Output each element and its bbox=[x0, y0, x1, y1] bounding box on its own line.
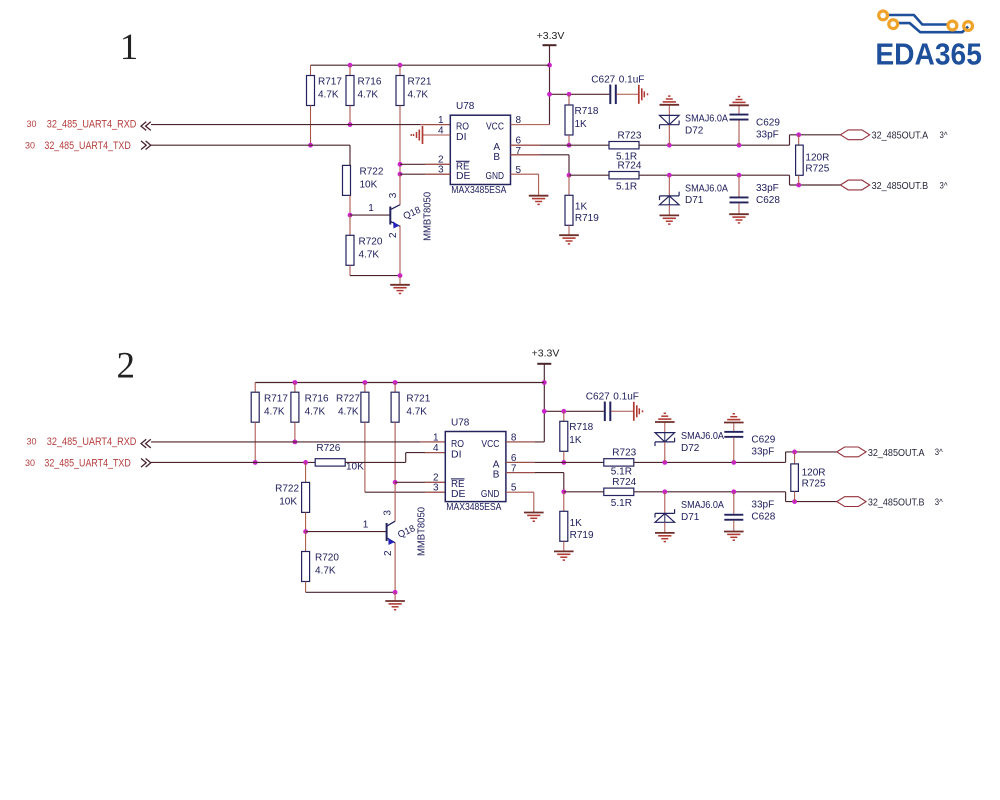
wire VCC branch bbox=[550, 93, 610, 95]
svg-text:SMAJ6.0A: SMAJ6.0A bbox=[681, 500, 724, 511]
ground D71 bbox=[655, 522, 675, 541]
svg-text:32_485OUT.A: 32_485OUT.A bbox=[872, 131, 929, 142]
junction bbox=[393, 380, 398, 385]
diode D72 SMAJ6.0A bbox=[655, 431, 724, 463]
svg-text:U78: U78 bbox=[451, 417, 470, 428]
wire net 32_485_UART4_TXD bbox=[151, 461, 315, 463]
svg-text:4.7K: 4.7K bbox=[318, 90, 339, 101]
ground D72 top (inverted) bbox=[655, 413, 675, 432]
svg-text:GND: GND bbox=[481, 489, 500, 500]
wire bbox=[634, 491, 786, 493]
svg-text:0.1uF: 0.1uF bbox=[613, 392, 639, 403]
svg-text:SMAJ6.0A: SMAJ6.0A bbox=[685, 184, 728, 195]
svg-text:R716: R716 bbox=[305, 393, 329, 404]
power +3.3V supply bbox=[532, 348, 560, 364]
wire net 32_485_UART4_RXD bbox=[151, 124, 450, 126]
svg-text:DI: DI bbox=[456, 132, 467, 143]
op-amp U1 transceiver U78 MAX3485ESA bbox=[445, 417, 506, 513]
svg-text:3^: 3^ bbox=[940, 130, 949, 140]
svg-text:3: 3 bbox=[382, 510, 393, 516]
wire bbox=[634, 461, 786, 463]
junction B node bbox=[567, 173, 572, 178]
resistor R723 bbox=[609, 130, 642, 162]
port 32_485OUT.A bbox=[840, 130, 948, 142]
port 32_485OUT.A bbox=[837, 447, 944, 459]
svg-text:3^: 3^ bbox=[935, 497, 944, 507]
wire emitter bbox=[399, 225, 401, 275]
svg-text:10K: 10K bbox=[360, 179, 378, 190]
section number 2 bbox=[117, 346, 136, 387]
node 32_485_UART4_RXD sheet entry bbox=[26, 119, 150, 131]
pin 2 bbox=[433, 473, 439, 484]
svg-text:32_485_UART4_TXD: 32_485_UART4_TXD bbox=[44, 140, 130, 152]
wire bbox=[564, 491, 604, 493]
svg-text:4.7K: 4.7K bbox=[358, 90, 379, 101]
svg-text:R717: R717 bbox=[264, 393, 288, 404]
resistor R717 bbox=[307, 65, 343, 145]
ground C628 bbox=[729, 203, 749, 223]
capacitor C629 bbox=[724, 431, 775, 463]
wire RE bbox=[400, 163, 450, 165]
svg-text:MMBT8050: MMBT8050 bbox=[417, 507, 428, 556]
resistor R718 bbox=[560, 411, 594, 462]
wire collector bbox=[394, 482, 396, 521]
ground C629 top (inverted) bbox=[729, 97, 749, 114]
junction R717/TXD bbox=[253, 460, 258, 465]
svg-text:3: 3 bbox=[433, 483, 439, 494]
pin 3 bbox=[438, 165, 444, 176]
svg-text:33pF: 33pF bbox=[751, 500, 774, 511]
wire collector bbox=[399, 174, 401, 205]
pin 4 bbox=[433, 443, 439, 454]
svg-text:R724: R724 bbox=[612, 477, 636, 488]
svg-text:1K: 1K bbox=[575, 119, 588, 130]
pin 1 bbox=[433, 432, 439, 443]
svg-text:3^: 3^ bbox=[940, 180, 949, 190]
pin 7 bbox=[511, 464, 517, 475]
wire DI route bbox=[345, 453, 445, 463]
junction R716 to RXD bbox=[348, 122, 353, 127]
pin 6 bbox=[516, 136, 522, 147]
resistor R720 bbox=[302, 532, 340, 593]
junction R718 top bbox=[561, 409, 566, 414]
svg-text:RO: RO bbox=[456, 122, 469, 133]
svg-text:C629: C629 bbox=[751, 435, 775, 446]
resistor R716 bbox=[291, 383, 329, 442]
junction bus bbox=[542, 380, 547, 385]
svg-text:1: 1 bbox=[368, 203, 374, 214]
pin 5 bbox=[516, 165, 522, 176]
svg-text:C627: C627 bbox=[586, 392, 610, 403]
svg-text:1: 1 bbox=[120, 27, 139, 68]
wire B to port bbox=[790, 175, 841, 185]
diode D72 SMAJ6.0A bbox=[660, 114, 729, 146]
junction D71/B bbox=[667, 173, 672, 178]
wire net 32_485_UART4_RXD bbox=[151, 441, 445, 443]
svg-text:GND: GND bbox=[486, 171, 505, 182]
ground D71 bbox=[660, 205, 680, 224]
wire DE bbox=[400, 173, 450, 175]
resistor R724 bbox=[609, 160, 642, 192]
wire VCC branch bbox=[544, 410, 604, 412]
wire emitter bbox=[394, 543, 396, 593]
svg-text:MMBT8050: MMBT8050 bbox=[423, 191, 434, 240]
svg-text:R721: R721 bbox=[408, 77, 432, 88]
ground D72 top (inverted) bbox=[660, 96, 680, 115]
resistor R720 bbox=[346, 215, 383, 276]
junction R718/A bbox=[561, 460, 566, 465]
svg-text:MAX3485ESA: MAX3485ESA bbox=[446, 502, 501, 513]
ground U78 pin5 bbox=[524, 512, 544, 521]
pin 3 bbox=[433, 483, 439, 494]
wire emitter-R720 link bbox=[306, 591, 396, 593]
logo pad bbox=[948, 21, 957, 30]
wire bbox=[549, 45, 551, 124]
logo pad bbox=[964, 22, 973, 31]
svg-text:R721: R721 bbox=[406, 393, 430, 404]
svg-text:C629: C629 bbox=[756, 117, 780, 128]
junction R721/RE bbox=[393, 480, 398, 485]
svg-text:10K: 10K bbox=[279, 496, 297, 507]
svg-text:32_485OUT.B: 32_485OUT.B bbox=[872, 181, 929, 192]
svg-text:4.7K: 4.7K bbox=[305, 406, 326, 417]
ground Q18 emitter bbox=[390, 276, 410, 294]
junction emitter/ground bbox=[393, 590, 398, 595]
resistor R721 bbox=[391, 383, 431, 483]
svg-text:30: 30 bbox=[26, 119, 36, 129]
wire base bbox=[350, 214, 390, 216]
svg-text:C628: C628 bbox=[756, 195, 780, 206]
wire A to port bbox=[786, 452, 837, 463]
op-amp U1 transceiver U78 MAX3485ESA bbox=[450, 101, 510, 196]
wire DE from R727 bbox=[365, 491, 445, 493]
svg-text:R718: R718 bbox=[575, 106, 599, 117]
svg-text:120R: 120R bbox=[805, 152, 829, 163]
capacitor C629 bbox=[730, 114, 781, 146]
svg-text:2: 2 bbox=[117, 346, 136, 387]
resistor R717 bbox=[251, 383, 288, 463]
svg-text:R719: R719 bbox=[570, 530, 594, 541]
ground DI bbox=[411, 126, 450, 144]
wire top bus bbox=[255, 382, 544, 384]
pin 5 bbox=[511, 483, 517, 494]
svg-text:D72: D72 bbox=[681, 443, 700, 454]
transistor Q2 Q18 bbox=[388, 191, 434, 240]
svg-text:1K: 1K bbox=[575, 201, 588, 212]
capacitor C627 bbox=[591, 75, 644, 105]
svg-text:5.1R: 5.1R bbox=[611, 467, 632, 478]
ground C627 bbox=[611, 402, 643, 421]
svg-text:R719: R719 bbox=[575, 213, 599, 224]
resistor R722 bbox=[275, 462, 310, 531]
resistor R716 bbox=[346, 65, 382, 124]
ground C629 top (inverted) bbox=[724, 414, 744, 431]
svg-text:4: 4 bbox=[433, 443, 439, 454]
junction R718 top bbox=[567, 92, 572, 97]
wire emitter-R720 link bbox=[350, 275, 400, 277]
junction base node bbox=[348, 213, 353, 218]
svg-text:MAX3485ESA: MAX3485ESA bbox=[451, 185, 506, 196]
resistor R722 bbox=[343, 165, 384, 215]
svg-text:C628: C628 bbox=[751, 512, 775, 523]
wire net A bbox=[511, 144, 610, 146]
svg-text:2: 2 bbox=[383, 550, 394, 556]
logo pad bbox=[889, 20, 898, 29]
svg-text:R726: R726 bbox=[316, 443, 340, 454]
svg-text:DI: DI bbox=[451, 449, 462, 460]
junction R725 top bbox=[796, 132, 801, 137]
svg-text:B: B bbox=[493, 469, 500, 480]
node VCC bus junction bbox=[547, 63, 552, 68]
capacitor C628 bbox=[730, 175, 781, 206]
wire A to port bbox=[790, 135, 841, 145]
wire bbox=[569, 174, 609, 176]
svg-text:SMAJ6.0A: SMAJ6.0A bbox=[685, 114, 728, 125]
wire DI stub bbox=[423, 134, 451, 136]
diode D71 SMAJ6.0A bbox=[655, 492, 724, 523]
ground R719 bbox=[559, 225, 579, 244]
pin 4 bbox=[438, 126, 444, 137]
svg-text:0.1uF: 0.1uF bbox=[619, 75, 645, 86]
svg-text:SMAJ6.0A: SMAJ6.0A bbox=[681, 431, 724, 442]
svg-text:R717: R717 bbox=[318, 77, 342, 88]
junction bbox=[542, 409, 547, 414]
svg-text:32_485OUT.B: 32_485OUT.B bbox=[868, 498, 925, 509]
junction C628/B bbox=[731, 489, 736, 494]
ground R719 bbox=[554, 541, 574, 560]
wire GND pin5 bbox=[511, 174, 539, 195]
svg-text:30: 30 bbox=[25, 458, 35, 468]
resistor R719 bbox=[565, 175, 599, 225]
logo text EDA365 bbox=[875, 36, 982, 71]
pin 7 bbox=[516, 146, 522, 157]
wire net A bbox=[506, 461, 604, 463]
wire net B bbox=[506, 473, 564, 492]
junction bbox=[363, 380, 368, 385]
svg-text:3: 3 bbox=[388, 192, 399, 198]
svg-text:5.1R: 5.1R bbox=[611, 498, 632, 509]
svg-text:4.7K: 4.7K bbox=[264, 406, 285, 417]
svg-text:120R: 120R bbox=[802, 467, 826, 478]
junction R718/A bbox=[567, 143, 572, 148]
pin 8 bbox=[511, 432, 517, 443]
node 32_485_UART4_TXD sheet entry bbox=[25, 140, 151, 152]
logo EDA365 traces bbox=[888, 15, 968, 32]
svg-text:R722: R722 bbox=[360, 166, 384, 177]
section number 1 bbox=[120, 27, 139, 68]
svg-text:RO: RO bbox=[451, 439, 464, 450]
junction R725 bottom bbox=[792, 499, 797, 504]
junction C629/A bbox=[737, 143, 742, 148]
junction C629/A bbox=[731, 460, 736, 465]
node 32_485_UART4_RXD sheet entry bbox=[26, 436, 150, 448]
capacitor C628 bbox=[724, 492, 775, 523]
junction C628/B bbox=[737, 173, 742, 178]
svg-text:D72: D72 bbox=[685, 126, 704, 137]
ground Q18 emitter bbox=[385, 592, 405, 609]
wire bbox=[639, 144, 790, 146]
resistor R721 bbox=[396, 65, 432, 205]
wire base bbox=[306, 531, 386, 533]
svg-text:32_485_UART4_TXD: 32_485_UART4_TXD bbox=[44, 458, 130, 470]
svg-text:30: 30 bbox=[26, 436, 36, 446]
junction bbox=[547, 92, 552, 97]
svg-text:R722: R722 bbox=[275, 483, 299, 494]
junction bbox=[398, 63, 403, 68]
wire RE bbox=[395, 481, 445, 483]
wire VCC pin8 bbox=[511, 124, 550, 126]
junction R721/DE bbox=[398, 172, 403, 177]
svg-text:R724: R724 bbox=[618, 160, 642, 171]
svg-text:33pF: 33pF bbox=[756, 183, 779, 194]
junction emitter/ground bbox=[398, 273, 403, 278]
junction B node bbox=[561, 489, 566, 494]
junction R721/RE bbox=[398, 162, 403, 167]
svg-text:R720: R720 bbox=[359, 237, 383, 248]
pin 1 label bbox=[368, 203, 374, 214]
diode D71 SMAJ6.0A bbox=[660, 175, 729, 206]
svg-text:4.7K: 4.7K bbox=[359, 250, 380, 261]
junction base node bbox=[303, 529, 308, 534]
svg-text:33pF: 33pF bbox=[756, 129, 779, 140]
svg-text:VCC: VCC bbox=[481, 439, 499, 450]
wire net B bbox=[511, 155, 570, 175]
port 32_485OUT.B bbox=[840, 180, 948, 192]
svg-text:1: 1 bbox=[363, 520, 369, 531]
resistor R719 bbox=[560, 492, 594, 542]
junction bbox=[348, 63, 353, 68]
resistor R718 bbox=[565, 94, 599, 145]
svg-text:R716: R716 bbox=[358, 77, 382, 88]
junction R722/TXD bbox=[303, 460, 308, 465]
wire GND pin5 bbox=[506, 492, 534, 512]
svg-text:D71: D71 bbox=[681, 512, 700, 523]
svg-text:VCC: VCC bbox=[486, 122, 504, 133]
ground C628 bbox=[724, 521, 744, 541]
svg-text:5.1R: 5.1R bbox=[616, 181, 637, 192]
junction D71/B bbox=[662, 489, 667, 494]
svg-text:1: 1 bbox=[438, 115, 444, 126]
svg-text:EDA365: EDA365 bbox=[875, 36, 982, 71]
resistor R723 bbox=[604, 448, 637, 478]
svg-text:30: 30 bbox=[25, 140, 35, 150]
pin 1 bbox=[438, 115, 444, 126]
wire bbox=[639, 174, 790, 176]
svg-text:R727: R727 bbox=[336, 393, 360, 404]
svg-text:32_485_UART4_RXD: 32_485_UART4_RXD bbox=[47, 119, 137, 131]
junction R725 top bbox=[792, 450, 797, 455]
wire VCC pin8 bbox=[506, 441, 544, 443]
svg-text:R718: R718 bbox=[569, 422, 593, 433]
ground U78 pin5 bbox=[529, 195, 549, 204]
resistor R725 bbox=[791, 452, 826, 502]
pin 1 label bbox=[363, 520, 369, 531]
capacitor C627 bbox=[586, 392, 639, 421]
pin 6 bbox=[511, 453, 517, 464]
svg-text:10K: 10K bbox=[346, 462, 364, 473]
svg-text:R720: R720 bbox=[315, 553, 339, 564]
resistor R725 bbox=[796, 135, 830, 185]
svg-text:1: 1 bbox=[433, 432, 439, 443]
junction D72/A bbox=[667, 143, 672, 148]
wire B to port bbox=[786, 492, 837, 502]
svg-text:33pF: 33pF bbox=[751, 447, 774, 458]
logo pad bbox=[879, 11, 888, 20]
svg-text:DE: DE bbox=[451, 489, 466, 500]
junction D72/A bbox=[662, 460, 667, 465]
junction R716/RXD bbox=[293, 440, 298, 445]
svg-text:32_485_UART4_RXD: 32_485_UART4_RXD bbox=[47, 436, 137, 448]
svg-text:4.7K: 4.7K bbox=[408, 90, 429, 101]
svg-text:+3.3V: +3.3V bbox=[537, 30, 565, 42]
resistor R727 bbox=[336, 383, 369, 493]
svg-text:C627: C627 bbox=[591, 75, 615, 86]
svg-text:R723: R723 bbox=[612, 448, 636, 459]
ground C627 bbox=[616, 85, 647, 104]
junction R717 to TXD bbox=[308, 143, 313, 148]
wire bbox=[543, 364, 545, 442]
svg-text:U78: U78 bbox=[456, 101, 475, 112]
resistor R724 bbox=[604, 477, 637, 509]
svg-text:4.7K: 4.7K bbox=[406, 406, 427, 417]
svg-text:4.7K: 4.7K bbox=[315, 566, 336, 577]
resistor R726 bbox=[315, 443, 364, 473]
wire top bus bbox=[311, 64, 550, 66]
svg-text:+3.3V: +3.3V bbox=[532, 348, 560, 360]
node 32_485_UART4_TXD sheet entry bbox=[25, 458, 151, 470]
svg-text:R725: R725 bbox=[802, 478, 826, 489]
svg-text:DE: DE bbox=[456, 171, 471, 182]
svg-text:R723: R723 bbox=[618, 130, 642, 141]
svg-text:R725: R725 bbox=[805, 163, 829, 174]
svg-text:1K: 1K bbox=[570, 518, 583, 529]
svg-text:32_485OUT.A: 32_485OUT.A bbox=[868, 448, 925, 459]
junction bbox=[293, 380, 298, 385]
pin 2 bbox=[438, 155, 444, 166]
pin 8 bbox=[516, 115, 522, 126]
transistor Q2 Q18 bbox=[382, 507, 427, 556]
wire net 32_485_UART4_TXD bbox=[151, 145, 350, 165]
power +3.3V supply bbox=[537, 30, 565, 45]
port 32_485OUT.B bbox=[837, 497, 944, 509]
svg-text:2: 2 bbox=[388, 232, 399, 238]
junction R725 bottom bbox=[796, 183, 801, 188]
svg-text:3^: 3^ bbox=[935, 447, 944, 457]
svg-text:4.7K: 4.7K bbox=[338, 406, 359, 417]
svg-text:D71: D71 bbox=[685, 195, 704, 206]
svg-text:B: B bbox=[493, 152, 500, 163]
svg-text:1K: 1K bbox=[569, 435, 582, 446]
